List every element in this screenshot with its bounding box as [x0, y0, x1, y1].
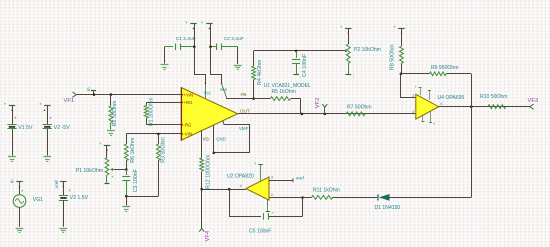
svg-text:U2 OPA820: U2 OPA820 — [227, 173, 254, 179]
svg-text:4: 4 — [240, 184, 242, 188]
svg-text:U4 OPA695: U4 OPA695 — [438, 95, 465, 101]
svg-text:R2 50Ohm: R2 50Ohm — [112, 100, 118, 126]
svg-text:+: + — [185, 20, 188, 25]
svg-text:R7 50Ohm: R7 50Ohm — [347, 105, 372, 111]
svg-text:vref: vref — [54, 180, 60, 189]
svg-text:C3 100nF: C3 100nF — [133, 168, 139, 192]
svg-text:C1 2.2uF: C1 2.2uF — [176, 36, 196, 42]
svg-text:+: + — [254, 161, 257, 166]
svg-text:+: + — [271, 210, 274, 215]
svg-text:Vee: Vee — [220, 87, 228, 92]
svg-text:R1 200Ohm: R1 200Ohm — [149, 97, 155, 126]
svg-text:VF4: VF4 — [205, 230, 211, 241]
svg-text:VF3: VF3 — [528, 98, 539, 104]
svg-text:R9 950Ohm: R9 950Ohm — [431, 65, 458, 71]
svg-text:R4 4kOhm: R4 4kOhm — [257, 59, 263, 85]
svg-text:+VIN: +VIN — [184, 92, 194, 97]
svg-text:in: in — [9, 179, 14, 183]
svg-text:P1 10kOhm: P1 10kOhm — [76, 168, 103, 174]
svg-text:OUT: OUT — [240, 108, 250, 113]
svg-text:+: + — [39, 102, 42, 107]
svg-text:R5 1kOhm: R5 1kOhm — [272, 89, 296, 95]
svg-text:in: in — [86, 87, 91, 91]
svg-text:+: + — [68, 188, 71, 193]
svg-text:R8 50Ohm: R8 50Ohm — [389, 44, 395, 70]
svg-text:+: + — [340, 24, 343, 29]
svg-text:U1 VCA821_MODEL: U1 VCA821_MODEL — [264, 83, 311, 89]
svg-text:2: 2 — [271, 193, 273, 197]
svg-text:FB: FB — [241, 92, 247, 97]
svg-text:+: + — [201, 20, 204, 25]
svg-text:R11 1kOhm: R11 1kOhm — [313, 188, 340, 194]
svg-text:VF2: VF2 — [315, 98, 321, 109]
svg-text:+: + — [21, 189, 24, 194]
svg-text:C5 100nF: C5 100nF — [249, 229, 271, 235]
svg-text:V1 5V: V1 5V — [18, 125, 33, 131]
svg-text:R10 50Ohm: R10 50Ohm — [480, 94, 507, 100]
svg-text:3: 3 — [412, 110, 414, 114]
svg-text:V2 -5V: V2 -5V — [54, 125, 70, 131]
svg-text:GND: GND — [216, 137, 225, 142]
svg-text:+RG: +RG — [184, 100, 194, 105]
svg-text:+: + — [394, 24, 397, 29]
svg-text:Vcc: Vcc — [204, 91, 211, 96]
svg-text:C2 2.2uF: C2 2.2uF — [224, 36, 244, 42]
svg-text:3: 3 — [271, 176, 273, 180]
svg-text:+: + — [4, 102, 7, 107]
svg-text:-VIN: -VIN — [184, 132, 193, 137]
svg-text:VG1: VG1 — [33, 197, 43, 203]
svg-text:R6 1kOhm: R6 1kOhm — [130, 137, 136, 163]
svg-text:vref: vref — [296, 175, 305, 181]
svg-text:-: - — [353, 74, 355, 79]
svg-text:+: + — [50, 116, 53, 121]
svg-text:-RG: -RG — [184, 123, 193, 128]
svg-text:C4 100nF: C4 100nF — [302, 53, 308, 77]
svg-text:2: 2 — [412, 94, 414, 98]
svg-text:VMF: VMF — [239, 126, 249, 131]
svg-text:VG: VG — [203, 137, 209, 142]
svg-text:P2 10kOhm: P2 10kOhm — [354, 47, 381, 53]
svg-text:+: + — [99, 141, 102, 146]
svg-text:+: + — [111, 174, 114, 179]
svg-text:+: + — [415, 85, 417, 89]
svg-text:R12 1000Ohm: R12 1000Ohm — [205, 154, 211, 189]
svg-text:VF1: VF1 — [64, 98, 75, 104]
svg-text:6: 6 — [441, 102, 443, 106]
svg-text:+: + — [14, 116, 17, 121]
svg-text:R3 50Ohm: R3 50Ohm — [160, 137, 166, 163]
svg-text:+: + — [433, 122, 435, 126]
svg-text:D1 1N4150: D1 1N4150 — [375, 205, 401, 211]
svg-text:V3 1.5V: V3 1.5V — [70, 195, 89, 201]
